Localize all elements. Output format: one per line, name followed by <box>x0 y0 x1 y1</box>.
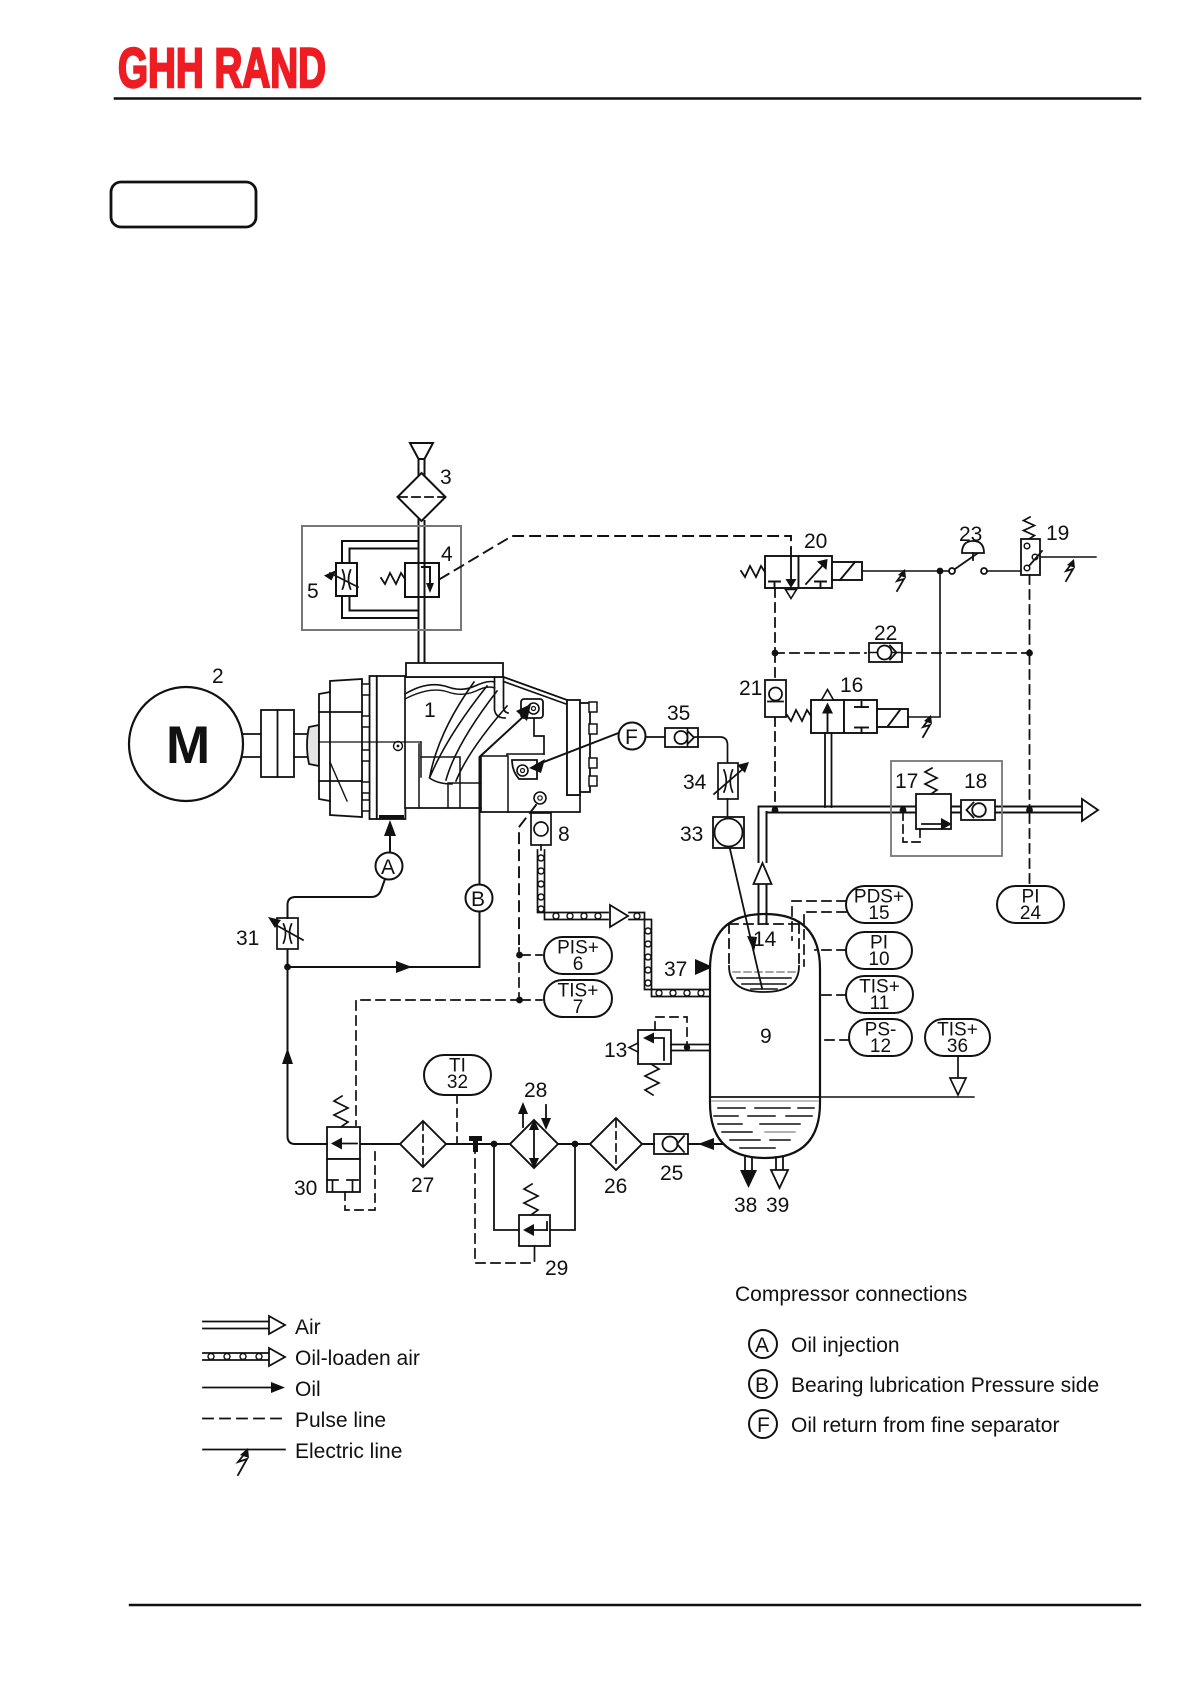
legend connection A <box>749 1330 777 1358</box>
svg-text:22: 22 <box>874 622 897 645</box>
legend connection F <box>749 1410 777 1438</box>
legend oil symbol <box>203 1387 272 1389</box>
oil filter 26 <box>590 1118 642 1170</box>
svg-text:17: 17 <box>895 770 918 793</box>
svg-text:Air: Air <box>295 1316 321 1339</box>
instrument label TI 32 <box>424 1055 491 1095</box>
main discharge air line <box>759 807 1083 814</box>
lightning <box>923 719 930 737</box>
svg-text:31: 31 <box>236 927 259 950</box>
header rule <box>115 97 1140 100</box>
intake flange <box>406 663 503 677</box>
svg-text:39: 39 <box>766 1194 789 1217</box>
oil temp sensor TI32 probe <box>469 1136 482 1141</box>
spring of 16 <box>787 710 811 721</box>
node on main line <box>1026 807 1033 814</box>
svg-text:34: 34 <box>683 771 707 794</box>
lightning <box>897 573 904 591</box>
node <box>284 964 291 971</box>
svg-text:10: 10 <box>868 949 889 970</box>
discharge flange <box>567 700 580 795</box>
pressure relief valve 4 <box>405 563 439 597</box>
level tap line <box>820 1096 974 1098</box>
electric line node down to valve 16 <box>909 571 940 717</box>
pulse line TI32 <box>456 1095 458 1144</box>
bypass pipe lower <box>342 596 419 618</box>
svg-text:24: 24 <box>1020 903 1042 924</box>
pulse line from TIS7 node to valve 30 <box>356 1000 520 1125</box>
svg-text:M: M <box>166 716 210 775</box>
pilot dashed from valve 4 to valve 20 <box>440 536 791 579</box>
GHH RAND logo <box>118 36 326 99</box>
solenoid valve 20 <box>741 549 862 599</box>
svg-text:Oil return from fine separator: Oil return from fine separator <box>791 1414 1059 1437</box>
pulse tap of PI10 <box>815 949 846 951</box>
svg-text:6: 6 <box>573 954 584 975</box>
instrument label TIS+ 7 <box>544 980 612 1018</box>
svg-text:16: 16 <box>840 674 863 697</box>
throttle valve 34 <box>714 762 749 799</box>
cover seam <box>405 682 495 695</box>
pulse line sensing from discharge <box>518 948 520 1000</box>
svg-text:Electric line: Electric line <box>295 1440 402 1463</box>
element oil level <box>733 972 795 989</box>
casing centerline <box>319 741 421 743</box>
solenoid valve 16 <box>787 690 908 734</box>
svg-text:Oil: Oil <box>295 1378 321 1401</box>
TIS+36 probe line <box>950 1056 966 1095</box>
svg-text:A: A <box>755 1334 769 1357</box>
svg-text:7: 7 <box>573 997 584 1018</box>
port F pad <box>512 760 537 779</box>
legend electric line symbol <box>203 1449 285 1451</box>
svg-text:20: 20 <box>804 530 827 553</box>
instrument label PS- 12 <box>849 1019 912 1057</box>
pulse line from discharge port down <box>519 805 536 944</box>
line 34 to 33 <box>727 799 729 817</box>
pressure regulator 17 <box>900 768 952 842</box>
svg-text:B: B <box>755 1374 769 1397</box>
svg-text:Bearing lubrication Pressure s: Bearing lubrication Pressure side <box>791 1374 1099 1397</box>
wire B to port <box>480 716 525 885</box>
svg-text:23: 23 <box>959 523 982 546</box>
instrument label PIS+ 6 <box>544 937 612 975</box>
pulse line down to PI24 <box>1029 575 1031 651</box>
wire 27 to 30 <box>360 1143 400 1145</box>
fine separator element 14 <box>729 924 799 968</box>
svg-text:Compressor connections: Compressor connections <box>735 1283 967 1306</box>
check valve 25 <box>654 1134 688 1154</box>
separator vessel 9 <box>710 914 820 1158</box>
svg-text:36: 36 <box>947 1036 968 1057</box>
vessel oil level line <box>710 1096 820 1098</box>
pressure switch 19 <box>1021 517 1096 575</box>
svg-text:26: 26 <box>604 1175 627 1198</box>
oil return: check valve 35 <box>665 728 698 747</box>
legend oil-loaden air symbol <box>203 1352 269 1354</box>
legend connection B <box>749 1370 777 1398</box>
lower body step <box>481 754 544 808</box>
svg-text:27: 27 <box>411 1174 434 1197</box>
svg-text:30: 30 <box>294 1177 317 1200</box>
drain outlet 39 <box>775 1157 777 1170</box>
lightning at 19 <box>1066 563 1073 581</box>
check valve 21 <box>765 680 786 717</box>
pulse tap of TIS+11 <box>820 994 846 996</box>
connection B circle <box>466 885 493 912</box>
thermo bypass valve 29 <box>494 1144 575 1261</box>
connection A arrow <box>389 833 391 852</box>
svg-text:A: A <box>381 856 395 879</box>
svg-text:GHH RAND: GHH RAND <box>118 36 326 99</box>
svg-text:13: 13 <box>604 1039 627 1062</box>
adapter boss <box>419 742 481 808</box>
svg-text:38: 38 <box>734 1194 757 1217</box>
instrument label PI 10 <box>846 932 912 970</box>
vent of 20 <box>786 590 797 599</box>
svg-text:9: 9 <box>760 1025 772 1048</box>
solenoid coil of 16 <box>877 709 908 727</box>
oil return dip tube <box>730 849 762 988</box>
air flow arrow up <box>754 863 772 884</box>
input hub <box>307 725 319 766</box>
pulse tap of PS-12 <box>820 1039 849 1041</box>
discharge port <box>534 792 546 804</box>
wire 26 to 28 <box>558 1143 590 1145</box>
svg-text:4: 4 <box>441 543 453 566</box>
motor shaft <box>242 733 261 735</box>
svg-text:25: 25 <box>660 1162 683 1185</box>
oil cooler 28 <box>510 1120 558 1168</box>
check valve 18 <box>961 800 995 820</box>
svg-text:Pulse line: Pulse line <box>295 1409 386 1432</box>
empty title box <box>111 182 256 227</box>
port bracket <box>534 718 544 754</box>
svg-text:B: B <box>471 888 485 911</box>
intake pipe to filter <box>418 459 420 475</box>
instrument label PDS+ 15 <box>846 886 912 924</box>
outlet arrow <box>1082 799 1098 821</box>
sight glass 33 <box>713 817 744 848</box>
minimum pressure valve 13 <box>629 1017 710 1095</box>
shaft to airend <box>294 733 309 735</box>
connection F circle <box>619 723 646 750</box>
svg-text:33: 33 <box>680 823 703 846</box>
svg-text:12: 12 <box>870 1036 891 1057</box>
throttle valve 5 <box>336 563 357 596</box>
instrument label PI 24 <box>997 886 1064 924</box>
oil line 31 up to A <box>288 879 386 918</box>
port B pad <box>521 699 543 718</box>
instrument label TIS+ 36 <box>925 1019 990 1057</box>
main casing outline <box>405 677 580 812</box>
svg-text:Oil injection: Oil injection <box>791 1334 900 1357</box>
svg-text:18: 18 <box>964 770 987 793</box>
left flange plates <box>370 676 377 819</box>
oil drain outlet 38 <box>744 1157 746 1170</box>
vent of 16 <box>822 690 834 701</box>
foot bar <box>379 815 404 820</box>
svg-text:29: 29 <box>545 1257 568 1280</box>
top slope double line <box>504 677 568 704</box>
compressor airend 1 <box>307 663 597 820</box>
coupling <box>261 710 294 777</box>
pulse line 20 down <box>774 588 776 651</box>
air outlet pipe from element <box>759 812 767 924</box>
svg-text:3: 3 <box>440 466 452 489</box>
pulse taps of PDS+15 <box>792 901 849 1040</box>
pressure switch 23 <box>940 541 1021 574</box>
svg-text:5: 5 <box>307 580 319 603</box>
intake duct <box>495 677 509 718</box>
air filter 3 <box>398 473 446 521</box>
legend air symbol <box>203 1321 269 1323</box>
node <box>937 568 944 575</box>
svg-text:35: 35 <box>667 702 690 725</box>
control air pipe from 16 down <box>824 733 826 807</box>
oil filter 27 <box>400 1121 446 1167</box>
footer rule <box>130 1604 1140 1606</box>
intake funnel <box>410 443 433 459</box>
check valve 22 <box>869 643 902 662</box>
legend pulse line symbol <box>203 1418 285 1420</box>
svg-text:F: F <box>757 1414 770 1437</box>
svg-text:1: 1 <box>424 699 436 722</box>
svg-text:8: 8 <box>558 823 570 846</box>
oil branch to B <box>288 912 480 967</box>
svg-text:37: 37 <box>664 958 687 981</box>
svg-text:21: 21 <box>739 677 762 700</box>
electric line 20 to node <box>862 570 940 572</box>
oil plug <box>394 742 403 751</box>
oil line 30 left and up <box>288 949 328 1144</box>
solenoid coil of 20 <box>832 562 862 580</box>
bearing housing <box>319 679 362 817</box>
thermostatic valve 30 <box>327 1096 375 1210</box>
connection A circle <box>376 853 403 880</box>
regulator assembly box 17 18 <box>891 761 1002 856</box>
bypass pipe upper <box>342 541 419 563</box>
instrument label TIS+ 11 <box>846 976 913 1014</box>
svg-text:2: 2 <box>212 665 224 688</box>
pulse line down through 21 <box>774 653 776 680</box>
oil-loaden air pipe <box>538 850 712 997</box>
wire 28 to 27 <box>446 1143 510 1145</box>
svg-text:32: 32 <box>447 1072 468 1093</box>
svg-text:Oil-loaden air: Oil-loaden air <box>295 1347 420 1370</box>
wire F to 35 to 34 <box>646 737 728 763</box>
injection nozzle 31 <box>268 917 303 949</box>
motor M 2 <box>129 687 243 801</box>
wire 25 to 26 <box>642 1143 654 1145</box>
flow arrow on oil-air line <box>610 905 628 927</box>
wire F to port <box>536 733 619 765</box>
oil-air line bead circles <box>538 855 704 996</box>
regulator enclosure box <box>302 526 461 630</box>
svg-text:14: 14 <box>753 928 777 951</box>
svg-text:F: F <box>625 726 638 749</box>
rotor blade curves <box>430 682 488 778</box>
check valve 8 <box>531 813 551 845</box>
svg-text:15: 15 <box>868 903 889 924</box>
pulse line horizontal 22 <box>775 652 866 654</box>
svg-text:19: 19 <box>1046 522 1069 545</box>
svg-text:28: 28 <box>524 1079 547 1102</box>
spring of 20 <box>741 566 765 577</box>
svg-text:11: 11 <box>870 993 890 1014</box>
oil line vessel to 25 <box>688 1143 722 1145</box>
separator inlet marker 37 <box>695 959 713 975</box>
pipe filter to box <box>418 519 420 664</box>
vessel liquid hatching <box>714 1108 814 1148</box>
